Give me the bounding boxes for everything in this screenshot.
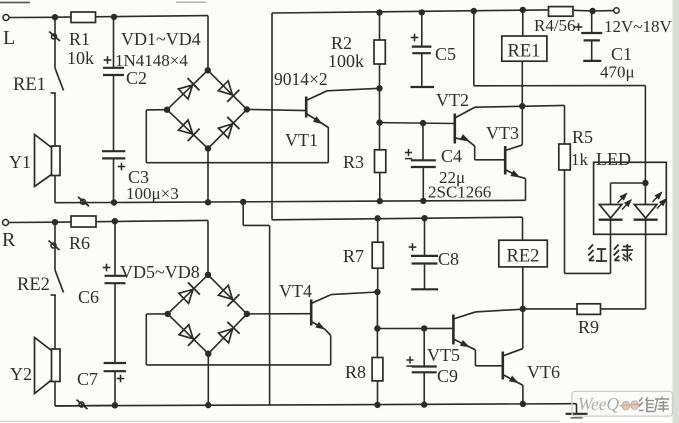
svg-text:C4: C4 [441, 146, 462, 166]
node bridge1 bottom on bus1 [205, 199, 211, 205]
diode bridge VD1-VD4 bottom-left edge [167, 110, 208, 149]
svg-text:C2: C2 [126, 68, 147, 88]
node VD1-VD4 bottom vertex [205, 145, 211, 151]
svg-text:C5: C5 [435, 44, 456, 64]
transistor VT6 [503, 349, 560, 404]
svg-text:R2: R2 [331, 33, 352, 53]
svg-text:9014×2: 9014×2 [274, 69, 328, 89]
watermark 维库 [639, 397, 669, 412]
svg-text:VT6: VT6 [527, 362, 560, 382]
svg-text:C8: C8 [438, 249, 459, 269]
node C2 top junction [111, 14, 117, 20]
svg-text:VD1~VD4: VD1~VD4 [121, 29, 201, 49]
capacitor C4 [405, 123, 465, 201]
node bus1 tie junction [240, 199, 246, 205]
resistor R2 [328, 13, 385, 89]
relay coil RE1 [502, 10, 547, 62]
wire VT4 collector to R7 bottom [331, 292, 377, 295]
relay contact RE2 (switch with cut mark) [17, 222, 64, 349]
relay contact RE1 (switch with cut mark) [13, 17, 64, 146]
capacitor C2 [103, 17, 147, 88]
diode bridge VD1-VD4 bottom-right edge [208, 109, 247, 148]
svg-text:2SC1266: 2SC1266 [428, 183, 491, 202]
node VD5-VD8 top vertex [205, 272, 211, 278]
svg-text:RE2: RE2 [507, 247, 540, 267]
svg-text:C9: C9 [437, 366, 458, 386]
node C5 top on V+ bus [419, 9, 425, 15]
node RE1 top on V+ bus [520, 7, 526, 13]
node R7 top on lower V+ bus [375, 215, 381, 221]
wire common tie bus1 to bottom bus [242, 202, 244, 226]
svg-text:R8: R8 [345, 362, 366, 382]
svg-text:R: R [2, 229, 16, 251]
svg-text:100μ×3: 100μ×3 [126, 184, 179, 203]
wire R terminal to node B [9, 221, 56, 223]
svg-text:1k: 1k [571, 150, 589, 169]
node C8 top on lower V+ bus [421, 215, 427, 221]
node VD5-VD8 right vertex [244, 311, 250, 317]
resistor R1 [67, 12, 96, 68]
node VT6 emitter on bottom bus [520, 401, 526, 407]
wire bridge1 left vertex loop to VT1 emitter [146, 109, 167, 111]
node V+ branch to LED supply [471, 8, 477, 14]
svg-text:VT5: VT5 [427, 345, 460, 365]
node C1 top junction [589, 8, 595, 14]
node R input terminal [3, 220, 9, 226]
resistor R3 [343, 123, 386, 202]
speaker Y1 [9, 135, 60, 187]
wire RE2 bottom to collector node [522, 267, 524, 309]
node C4 bottom on bus1 [420, 198, 426, 204]
node RE2/VT5/VT6/R9 junction [520, 306, 526, 312]
svg-text:RE1: RE1 [508, 42, 541, 62]
wire V+ branch down and right to LED box [473, 11, 475, 86]
svg-text:R4/56: R4/56 [534, 16, 576, 35]
diode bridge VD5-VD8 top-left edge [168, 275, 208, 314]
capacitor C8 [409, 218, 459, 289]
wire bridge2 left vertex loop to VT4 emitter [146, 313, 167, 315]
capacitor C7 [77, 283, 126, 405]
LED red (红) [599, 194, 631, 220]
wire Y1 to bus1 [54, 176, 56, 203]
wire VT3 collector to RE1 [521, 61, 523, 145]
capacitor C5 [411, 12, 457, 87]
node C3 bottom on bus1 [111, 199, 117, 205]
node B junction R/R6/RE2-contact [52, 219, 58, 225]
wire to supply terminal [573, 9, 593, 12]
wire green LED cathode down to R9 [645, 220, 647, 309]
LED enclosure box [594, 162, 667, 234]
node darlington collector junction [519, 103, 525, 109]
node 12V supply terminal [614, 8, 619, 13]
wire R5 bottom to red LED cathode [564, 170, 566, 273]
resistor R7 [343, 218, 383, 292]
node C6 top junction [112, 218, 118, 224]
wire VT2 base wire [380, 122, 455, 125]
node C9 top junction [421, 325, 427, 331]
node VD1-VD4 top vertex [205, 67, 211, 73]
svg-text:C1: C1 [611, 44, 632, 64]
speaker Y2 [10, 338, 60, 394]
svg-text:C7: C7 [77, 369, 98, 389]
svg-text:VD5~VD8: VD5~VD8 [120, 262, 200, 282]
wire L terminal to node A [9, 16, 55, 18]
wire VT2 collector rail to R5 [475, 105, 565, 107]
diode bridge VD1-VD4 top-right edge [208, 70, 247, 109]
capacitor C6 [78, 221, 126, 307]
svg-text:R5: R5 [572, 127, 593, 147]
wire top V+ bus [272, 10, 549, 13]
wire top-left bus corner down to bridge VD1-VD4 top [207, 16, 209, 71]
node C4 top junction [420, 120, 426, 126]
svg-text:1N4148×4: 1N4148×4 [115, 51, 188, 70]
svg-text:VT3: VT3 [486, 123, 519, 143]
label red LED 红 [588, 245, 607, 262]
svg-text:Y2: Y2 [10, 364, 32, 384]
svg-text:RE2: RE2 [17, 275, 50, 295]
resistor R4/56 [534, 7, 576, 35]
capacitor C1 [575, 11, 635, 82]
resistor R6 [69, 216, 96, 253]
node VT4 collector / R7 bottom [374, 289, 380, 295]
svg-text:R6: R6 [69, 233, 90, 253]
wire R7-R8 column [376, 292, 378, 329]
svg-text:C6: C6 [78, 287, 99, 307]
node VD1-VD4 left vertex [164, 107, 170, 113]
node R2 top on V+ bus [376, 9, 382, 15]
svg-text:R3: R3 [343, 152, 364, 172]
svg-text:10k: 10k [67, 48, 94, 68]
transistor VT4 [279, 281, 331, 365]
svg-text:VT2: VT2 [436, 90, 469, 110]
transistor VT5 [427, 312, 503, 366]
wire bus1 (upper channel common rail) [114, 200, 526, 202]
ground [566, 404, 588, 418]
wire VT5 collector to RE2 bottom node [475, 309, 522, 312]
wire VT6 collector to junction [522, 309, 524, 349]
transistor VT1 [285, 90, 328, 163]
wire VT1 collector to R2 bottom [327, 88, 380, 91]
transistor VT2 [436, 90, 505, 160]
node C7 bottom on bottom bus [112, 402, 118, 408]
node LED anode junction [642, 180, 648, 186]
diode bridge VD5-VD8 bottom-right edge [208, 314, 247, 354]
wire corner down to bridge VD5-VD8 top [207, 220, 209, 274]
watermark box WeeQoo [572, 391, 673, 416]
diode bridge VD5-VD8 bottom-left edge [168, 314, 209, 354]
wire bridge1 right vertex to VT1 base [247, 109, 306, 110]
node VD1-VD4 right vertex [244, 106, 250, 112]
svg-text:L: L [3, 27, 15, 49]
node VT2 base junction [376, 119, 382, 125]
svg-text:WeeQ: WeeQ [578, 394, 620, 414]
svg-text:100k: 100k [328, 51, 364, 71]
svg-text:R9: R9 [578, 317, 599, 337]
node VD5-VD8 bottom vertex [205, 351, 211, 357]
wire bottom scan artifact [0, 420, 560, 422]
diode bridge VD5-VD8 top-right edge [208, 275, 247, 314]
node C9 bottom on bottom bus [421, 401, 427, 407]
svg-text:VT1: VT1 [285, 130, 318, 150]
svg-text:RE1: RE1 [13, 75, 46, 95]
wire VT5 base wire [377, 327, 453, 329]
capacitor C3 [102, 75, 179, 203]
svg-text:470μ: 470μ [600, 63, 635, 82]
label green LED 绿 [614, 244, 633, 262]
wire top border artifact [0, 2, 30, 4]
node VD5-VD8 left vertex [165, 311, 171, 317]
node R3 bottom on bus1 [377, 198, 383, 204]
wire bridge2 right vertex to VT4 base [247, 313, 311, 315]
resistor R5 [559, 127, 593, 170]
svg-text:R7: R7 [343, 246, 364, 266]
resistor R8 [345, 329, 383, 405]
wire V+ riser from top bus down to lower channel bus [271, 13, 273, 220]
node L input terminal [3, 15, 9, 21]
svg-text:12V~18V: 12V~18V [604, 17, 672, 36]
wire bridge2 bottom vertex to bottom bus [207, 354, 209, 405]
wire LED anode bar [611, 182, 646, 184]
svg-text:R1: R1 [69, 29, 90, 49]
LED green (绿) [634, 193, 666, 220]
node bridge2 bottom on bottom bus [205, 402, 211, 408]
capacitor C9 [406, 328, 458, 404]
node R8 bottom on bottom bus [374, 402, 380, 408]
node A junction L/R1/RE1-contact [52, 14, 58, 20]
node VT5 base junction [374, 325, 380, 331]
node VT1 collector / R2 bottom [376, 85, 382, 91]
wire Y2 to bottom bus [54, 382, 56, 406]
wire bridge1 bottom vertex to bus1 [207, 149, 209, 203]
wire lower V+ bus corner to RE2 [522, 217, 524, 240]
svg-text:Y1: Y1 [9, 152, 31, 172]
wire node B to bridge2 top [55, 220, 208, 222]
transistor VT3 [486, 123, 526, 200]
wire bottom bus (lower channel common rail) [55, 404, 577, 406]
resistor R9 [523, 304, 646, 337]
diode bridge VD1-VD4 top-left edge [167, 70, 208, 109]
wire node A to R1 [55, 16, 208, 18]
svg-text:VT4: VT4 [279, 281, 312, 301]
relay coil RE2 [499, 240, 548, 267]
wire R2-R3 column [379, 88, 381, 122]
svg-text:LED: LED [596, 149, 631, 169]
